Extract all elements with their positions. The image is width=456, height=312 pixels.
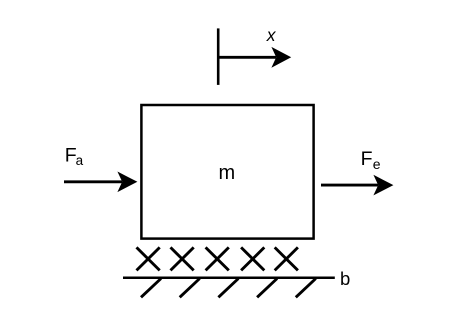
svg-text:e: e <box>373 156 381 172</box>
svg-text:m: m <box>218 162 235 184</box>
svg-text:F: F <box>361 148 373 170</box>
svg-text:a: a <box>76 153 84 168</box>
svg-text:x: x <box>266 25 277 45</box>
svg-text:b: b <box>340 268 350 289</box>
